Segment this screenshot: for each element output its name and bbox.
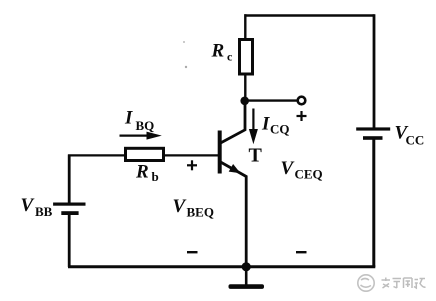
svg-text:c: c — [227, 50, 233, 64]
transistor emitter arrow — [229, 164, 241, 173]
svg-text:V: V — [173, 196, 187, 217]
label + at base — [187, 160, 197, 170]
wire right vertical upper — [373, 14, 376, 127]
svg-text:I: I — [124, 108, 133, 129]
wire top horizontal — [245, 14, 375, 17]
svg-text:R: R — [135, 162, 149, 183]
svg-text:BEQ: BEQ — [187, 205, 214, 220]
battery VBB long plate — [53, 203, 85, 206]
wire left vertical lower — [68, 215, 71, 268]
svg-text:V: V — [281, 158, 295, 179]
svg-text:I: I — [261, 114, 270, 135]
svg-text:b: b — [152, 169, 159, 184]
transistor collector lead — [221, 100, 246, 143]
label minus left — [187, 251, 198, 253]
label minus right — [296, 251, 307, 253]
wire left vertical upper — [68, 155, 71, 203]
node collector junction dot — [240, 97, 249, 106]
svg-text:R: R — [211, 41, 225, 62]
svg-text:CQ: CQ — [270, 122, 290, 137]
svg-text:BB: BB — [35, 204, 53, 219]
wire collector to terminal — [245, 99, 298, 101]
battery VCC short plate — [363, 136, 383, 140]
battery VCC long plate — [356, 127, 390, 130]
ground stub — [245, 267, 248, 285]
current arrow ICQ — [249, 109, 258, 145]
svg-text:CEQ: CEQ — [295, 167, 323, 182]
wire right vertical lower — [372, 139, 375, 267]
battery VBB short plate — [61, 211, 78, 215]
wire base left segment — [68, 154, 125, 156]
svg-text:CC: CC — [406, 133, 425, 148]
current arrow IBQ — [120, 132, 162, 140]
watermark text 达尔闻说 — [382, 278, 426, 289]
speck artifacts — [183, 41, 185, 43]
wire Rc bottom vertical — [244, 74, 246, 101]
resistor Rb — [126, 148, 164, 160]
wire Rc top vertical — [244, 14, 246, 39]
transistor emitter lead — [221, 162, 247, 267]
resistor Rc — [240, 40, 253, 75]
ground bar — [229, 284, 265, 289]
label + at terminal — [297, 111, 307, 121]
wire bottom horizontal — [68, 265, 375, 268]
svg-text:BQ: BQ — [136, 118, 155, 133]
watermark logo circle — [358, 275, 374, 291]
transistor T base bar — [218, 131, 222, 174]
wire base right segment — [165, 154, 219, 156]
svg-text:T: T — [249, 145, 263, 167]
terminal open circle — [298, 97, 306, 105]
svg-text:V: V — [21, 195, 35, 216]
node bottom junction dot — [242, 262, 251, 271]
